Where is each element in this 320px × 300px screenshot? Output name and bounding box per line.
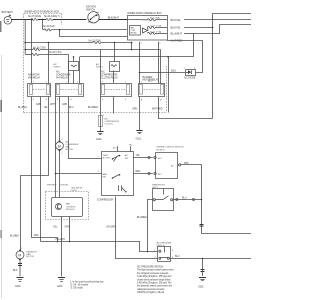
relay R4 BLOWER MOTOR RELAY	[139, 76, 165, 101]
svg-text:BLU: BLU	[171, 68, 176, 72]
svg-text:MOTOR: MOTOR	[66, 149, 74, 151]
V32 battery feed down to relay R1 left pin	[31, 19, 33, 83]
svg-text:No.47 (100A): No.47 (100A)	[28, 15, 41, 18]
R2 bottom wire to compressor (y173)	[56, 97, 102, 174]
ground G2 (under diode wire)	[136, 131, 143, 141]
relay R1 RADIATOR FAN RELAY	[28, 74, 51, 102]
svg-text:G101: G101	[136, 137, 142, 140]
svg-text:No.15 (10A): No.15 (10A)	[43, 25, 55, 28]
svg-text:A/C DIODE: A/C DIODE	[184, 77, 196, 80]
svg-text:BATTERY: BATTERY	[2, 10, 14, 14]
A/C thermostat box	[152, 184, 173, 211]
svg-text:UNDER-DASH FUSE/RELAY BOX: UNDER-DASH FUSE/RELAY BOX	[127, 12, 162, 15]
svg-text:No.23 (7.5A): No.23 (7.5A)	[49, 51, 62, 54]
relay R2 A/C CONDENSER FAN RELAY	[56, 71, 84, 102]
svg-text:BOX 1: BOX 1	[72, 190, 79, 192]
pressure switch right wire to edge	[170, 258, 252, 260]
svg-text:BLK/WHT: BLK/WHT	[108, 16, 120, 20]
svg-text:GRN: GRN	[65, 226, 70, 229]
wire battery to ignition switch (y19.4)	[12, 19, 32, 21]
radiator fan motor M2	[13, 248, 37, 276]
svg-text:G401: G401	[57, 285, 63, 288]
svg-text:BLU: BLU	[182, 197, 187, 200]
svg-text:A/C: A/C	[54, 63, 58, 66]
wire diode pin1 left and down to ground	[140, 72, 186, 74]
svg-text:MOTOR RELAY: MOTOR RELAY	[143, 79, 160, 82]
feed line y44.8 to V131	[25, 42, 93, 44]
svg-text:HEAT/FROST: HEAT/FROST	[152, 184, 165, 187]
relay R3 A/C COMPRESSOR CLUTCH RELAY	[101, 71, 132, 102]
svg-text:CLUTCH RELAY: CLUTCH RELAY	[101, 77, 118, 80]
svg-text:BLK/YEL: BLK/YEL	[171, 26, 182, 30]
under-dash fuse/relay box U2	[128, 16, 168, 41]
R3 bottom wire to ground	[100, 96, 102, 128]
svg-text:G301: G301	[198, 286, 204, 289]
R4 bottom wire down to y115.9 then right	[159, 97, 213, 119]
svg-text:A/C: A/C	[125, 154, 129, 157]
compressor to ECM wire 2	[133, 173, 153, 175]
svg-text:CLUTCH: CLUTCH	[105, 124, 114, 126]
wire to right edge at y13 from V212.5	[213, 14, 252, 28]
wire O4 down to diode pin2	[196, 41, 203, 73]
svg-text:M: M	[58, 144, 61, 148]
svg-text:BLU: BLU	[175, 255, 180, 258]
svg-text:BLK/YEL: BLK/YEL	[61, 184, 70, 186]
svg-text:BLU/RED: BLU/RED	[137, 216, 147, 219]
svg-text:FAN: FAN	[66, 203, 70, 206]
ground G5	[198, 278, 206, 289]
wire from V48.3 to pressure switch	[41, 242, 158, 252]
junction Q to V168.1	[167, 56, 169, 58]
svg-text:FAN RELAY: FAN RELAY	[56, 77, 69, 80]
svg-text:ENGINE CONTROL MODULE: ENGINE CONTROL MODULE	[157, 147, 185, 149]
svg-text:PNK: PNK	[184, 162, 189, 165]
svg-text:BLU/RED: BLU/RED	[88, 106, 98, 109]
R3 bottom middle stub	[113, 96, 115, 113]
svg-text:SWITCH: SWITCH	[86, 8, 95, 11]
svg-text:WHT/RED: WHT/RED	[47, 184, 57, 186]
svg-text:CONTROL: CONTROL	[66, 206, 77, 208]
svg-text:GRN: GRN	[62, 103, 67, 106]
fan relay (inside under-dash box)	[130, 26, 148, 36]
svg-text:YEL/GRN: YEL/GRN	[106, 226, 116, 229]
page left border artifact	[0, 21, 2, 298]
svg-text:M: M	[18, 254, 21, 258]
P corner down to relay R2	[68, 55, 70, 84]
battery B1	[2, 10, 14, 24]
wire from right edge y24 to join O3	[194, 25, 252, 34]
multiplex control unit (dashed)	[46, 188, 89, 220]
svg-text:A/C: A/C	[96, 63, 100, 66]
svg-text:MODULE: MODULE	[66, 209, 75, 211]
A/C condenser fan motor M1	[56, 139, 79, 155]
svg-text:BLK: BLK	[13, 269, 18, 272]
svg-text:COMPRESSOR: COMPRESSOR	[97, 198, 114, 201]
svg-text:(ECM) *2: (ECM) *2	[157, 149, 166, 151]
V193.7: O3 down then left (y56.9)	[80, 34, 194, 57]
transistor symbol	[56, 204, 62, 210]
battery bus V25.2	[24, 20, 26, 55]
svg-text:GRN: GRN	[132, 107, 137, 110]
ground G4 x60	[57, 278, 65, 289]
fan control module inner box	[52, 198, 83, 217]
svg-text:*2: '05 model: *2: '05 model	[70, 286, 83, 289]
ECM right wire	[181, 164, 202, 166]
svg-text:FAN RELAY: FAN RELAY	[28, 77, 41, 80]
mini fuse box A (x73-83)	[54, 56, 79, 83]
ECM/PCM box	[154, 147, 184, 179]
MICU bottom wires	[61, 217, 63, 277]
compressor box	[97, 144, 134, 201]
svg-text:MOTOR: MOTOR	[27, 256, 35, 258]
wire row3 from under-dash pin left then up	[60, 30, 128, 37]
svg-text:SW: SW	[103, 176, 106, 178]
A/C diode D1	[184, 68, 197, 80]
svg-text:SW: SW	[125, 158, 128, 160]
svg-text:FUSE 2: FUSE 2	[96, 67, 104, 69]
mini fuse box B (x109-119)	[96, 42, 120, 83]
wire ignition switch to under-dash box	[99, 19, 127, 21]
R1 bottom wires	[32, 97, 58, 242]
fuse No.42 (40A)	[44, 15, 60, 20]
thermostat left wire down to pressure switch wire	[148, 200, 154, 252]
compressor bottom wire x115.5 to pressure switch pin 2	[116, 197, 158, 259]
vertical V212.5 (BLK/YEL feed) down to corner y117.9	[212, 28, 214, 119]
V168.1 down to ECM top pin	[168, 57, 170, 113]
ground chain at x202.5	[202, 259, 204, 277]
svg-text:MO SW: MO SW	[103, 157, 110, 159]
svg-text:G201: G201	[15, 285, 21, 288]
svg-text:RED: RED	[136, 170, 141, 173]
ignition switch SW1	[86, 6, 100, 24]
svg-text:A/C PRESSURE: A/C PRESSURE	[157, 242, 173, 245]
ground G1 (R3)	[96, 132, 104, 141]
svg-text:A/C: A/C	[105, 118, 109, 121]
wire row2 to under-dash box (y29.9)	[43, 29, 44, 31]
svg-text:GRN: GRN	[36, 103, 41, 106]
thermostat right wire to V201.5	[173, 199, 202, 201]
svg-text:WHT: WHT	[50, 103, 56, 106]
fuse on row2	[44, 29, 51, 31]
fuse No.47 (100A)	[28, 15, 41, 20]
svg-text:YEL/GRN: YEL/GRN	[55, 238, 65, 241]
ground G3 under radiator fan motor	[15, 278, 24, 289]
noise condenser (on R3 ground wire)	[99, 115, 120, 131]
R2 bottom wire to condenser fan motor	[59, 96, 61, 140]
svg-text:FUSE 6: FUSE 6	[54, 67, 62, 69]
notes text	[70, 281, 104, 290]
svg-text:WHT/RED: WHT/RED	[152, 107, 163, 110]
svg-text:MAG: MAG	[103, 173, 108, 176]
svg-text:No.42 (100A) *1: No.42 (100A) *1	[44, 15, 60, 18]
compressor to ECM wire 1	[133, 157, 153, 159]
under-dash bottom pin wires V131 V144.2 V158.5	[131, 42, 133, 50]
feed line P (y57.5)	[25, 54, 31, 56]
svg-text:BLU: BLU	[69, 106, 74, 109]
svg-text:BLK/YEL: BLK/YEL	[171, 18, 182, 22]
svg-text:BLU/WHT: BLU/WHT	[171, 32, 183, 36]
wire down from battery wire to fuse row 2	[42, 20, 44, 30]
V48.3 from y44.8 down to relay R1 right pin	[48, 43, 50, 84]
R2 bottom wire to compressor (y158.4)	[69, 97, 102, 159]
pressure switch description text	[137, 266, 174, 295]
feed line Q corner down to R2 right pin	[79, 57, 81, 83]
A/C pressure switch	[154, 242, 174, 262]
svg-text:PNK: PNK	[34, 234, 39, 237]
svg-text:G101: G101	[96, 138, 102, 141]
svg-text:BLU/BLK: BLU/BLK	[10, 235, 20, 238]
node tee at x42 on battery wire	[42, 19, 44, 21]
V201.5 down through thermostat wire to corner y233.5	[201, 165, 203, 234]
svg-text:BLU/BLK: BLU/BLK	[18, 106, 28, 109]
under-hood fuse/relay box (dashed)	[24, 14, 167, 113]
svg-text:RELAY: RELAY	[130, 31, 137, 34]
compressor top pin stubs	[117, 146, 119, 151]
svg-text:196 kPa (2.0 kgf/cm, 28 psi).: 196 kPa (2.0 kgf/cm, 28 psi).	[137, 291, 165, 294]
clutch coil	[118, 185, 120, 191]
